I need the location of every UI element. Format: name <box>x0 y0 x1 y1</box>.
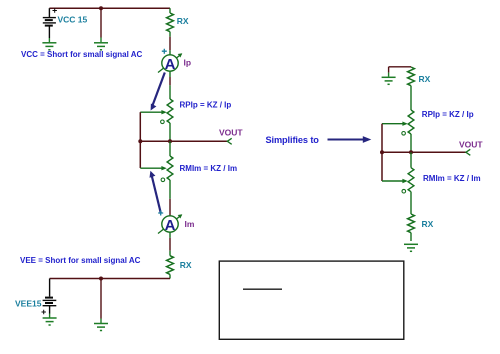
terminal VOUT (left circuit) <box>227 138 231 144</box>
potentiometer RMIm (right) <box>410 152 412 167</box>
node dots on VOUT rail <box>138 139 142 143</box>
svg-text:Im: Im <box>185 219 195 229</box>
wire: wiper bus (right vertical) <box>381 124 383 181</box>
svg-text:VCC 15: VCC 15 <box>58 15 88 25</box>
svg-text:VCC = Short for small signal A: VCC = Short for small signal AC <box>21 50 143 59</box>
arrow from Im to RMIm wiper <box>150 171 161 214</box>
wire: top rail to ground <box>389 66 411 68</box>
wiper arrow RMIm <box>140 166 167 170</box>
svg-text:A: A <box>165 56 176 73</box>
potentiometer RPIp <box>167 99 173 123</box>
arrow: simplifies to <box>328 136 372 143</box>
wire: junction down <box>100 8 102 37</box>
wire: VOUT rail <box>140 140 227 142</box>
wire: junction down to ground <box>100 279 102 319</box>
svg-text:VOUT: VOUT <box>459 139 483 149</box>
svg-text:RX: RX <box>177 16 189 26</box>
ground G5 (top right) <box>382 77 396 84</box>
node dots (right) <box>380 150 384 154</box>
marker circle RPIp (right) <box>402 132 406 136</box>
battery V2 plus sign <box>42 310 46 314</box>
wiper arrow RPIp (right) <box>382 122 408 126</box>
svg-text:RX: RX <box>419 74 431 84</box>
arrow from Ip to RPIp wiper <box>151 73 165 111</box>
wire: ammeter Ip to pot RPIp <box>169 71 171 77</box>
wire: RMIm to RX (bottom right) <box>410 192 412 214</box>
ground G6 (bottom right) <box>404 244 418 251</box>
wire: ammeter Im to RX <box>169 232 171 238</box>
svg-text:RX: RX <box>422 219 434 229</box>
box rectangle <box>219 261 403 339</box>
wiper arrow RPIp <box>140 110 167 114</box>
resistor RX (top right) <box>408 67 415 86</box>
battery V1 plus sign <box>53 8 57 12</box>
potentiometer RPIp (right) <box>408 110 414 134</box>
svg-text:RPIp = KZ / Ip: RPIp = KZ / Ip <box>180 100 232 109</box>
svg-text:VEE = Short for small signal A: VEE = Short for small signal AC <box>20 256 141 265</box>
ammeter U1 (Ip) <box>158 49 182 73</box>
resistor RX (bottom right) <box>408 214 415 233</box>
ground G4 under bottom rail junction <box>94 324 108 331</box>
terminal VOUT (right) <box>466 149 470 155</box>
line inside box <box>243 288 282 290</box>
wire: wiper bus (left vertical) <box>139 112 141 168</box>
svg-text:Ip: Ip <box>184 58 192 68</box>
wire: battery V1 bottom lead <box>48 26 50 38</box>
node: junction on top rail <box>99 6 103 10</box>
wiper arrow RMIm (right) <box>382 179 408 183</box>
node: junction on bottom rail <box>99 277 103 281</box>
svg-text:RX: RX <box>180 260 192 270</box>
wire: battery V1 top lead <box>48 8 50 17</box>
wire: bottom rail VEE <box>50 278 170 280</box>
svg-text:A: A <box>165 217 176 234</box>
marker circle RMIm (right) <box>402 189 406 193</box>
battery V2 VEE (flipped) <box>43 298 57 306</box>
potentiometer RMIm <box>169 141 171 156</box>
wire: RX to ammeter Ip <box>169 37 171 51</box>
marker circle RMIm <box>161 178 165 182</box>
ground G2 under top rail junction <box>94 43 108 50</box>
wire: VOUT rail (right) <box>382 151 466 153</box>
svg-text:VEE15: VEE15 <box>15 298 42 308</box>
marker circle RPIp <box>161 120 165 124</box>
resistor RX (top left) <box>169 8 171 13</box>
battery V1 VCC <box>43 18 56 26</box>
svg-text:VOUT: VOUT <box>219 127 243 137</box>
wire: top rail VCC <box>49 7 170 9</box>
svg-text:RPIp = KZ / Ip: RPIp = KZ / Ip <box>422 110 474 119</box>
svg-text:RMIm = KZ / Im: RMIm = KZ / Im <box>423 174 481 183</box>
ground G3 under battery V2 <box>43 318 57 325</box>
wire: RMIm to ammeter Im <box>169 180 171 199</box>
wire: battery V2 bottom lead <box>49 306 51 314</box>
resistor RX (bottom left) <box>167 256 174 275</box>
svg-text:Simplifies to: Simplifies to <box>266 135 320 145</box>
ground G1 under battery V1 <box>42 43 56 50</box>
ammeter U2 (Im) <box>158 211 182 235</box>
wire: RX to RPIp <box>410 91 412 111</box>
wire: battery V2 top lead <box>49 279 51 297</box>
svg-text:RMIm = KZ / Im: RMIm = KZ / Im <box>180 164 238 173</box>
